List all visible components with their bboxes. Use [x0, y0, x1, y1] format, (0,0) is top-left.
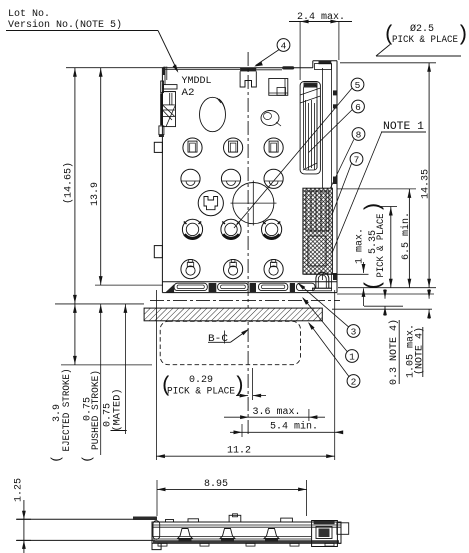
dimension mated line — [124, 304, 126, 434]
side view left lever — [153, 521, 160, 540]
svg-text:(: ( — [363, 279, 386, 292]
svg-text:3: 3 — [351, 326, 357, 337]
svg-text:YMDDL: YMDDL — [182, 75, 212, 87]
contact row arc type — [181, 169, 200, 188]
svg-text:4: 4 — [281, 40, 287, 51]
balloon 6 — [352, 100, 365, 113]
contact row square-in-circle — [183, 138, 202, 157]
connector body outline — [161, 68, 163, 293]
side view mounting lines — [16, 518, 155, 520]
crosshatched shield block — [303, 188, 333, 274]
large reference circle — [233, 183, 274, 224]
dimension 5.35 pick&place — [390, 207, 392, 288]
balloon 4 — [277, 39, 290, 52]
body inner right wall — [331, 64, 333, 288]
svg-text:8: 8 — [356, 129, 362, 140]
leader balloon 8 — [316, 140, 354, 219]
5.35 top ref — [381, 206, 397, 208]
svg-text:3.6 max.: 3.6 max. — [253, 407, 301, 418]
balloon 3 — [347, 325, 360, 338]
dimension pushed stroke line — [100, 304, 102, 455]
svg-text:(: ( — [80, 455, 95, 463]
leader balloon 7 — [325, 164, 352, 234]
balloon 7 — [350, 153, 363, 166]
leader balloon 5 — [234, 88, 352, 228]
dome contact — [316, 272, 329, 288]
side view right box — [312, 521, 338, 547]
side view contacts — [178, 529, 193, 539]
svg-text:PUSHED STROKE): PUSHED STROKE) — [90, 370, 102, 450]
PCB bar hatched — [144, 308, 322, 321]
left tab upper — [154, 142, 162, 152]
vertical centerline — [247, 52, 249, 437]
svg-text:6.5 min.: 6.5 min. — [400, 212, 412, 260]
dimension 14.35 — [428, 63, 430, 288]
card outline dashed — [160, 321, 300, 364]
leader balloon 4 — [256, 50, 280, 66]
balloon 8 — [352, 128, 365, 141]
dimension 13.9 — [95, 284, 163, 286]
svg-text:(14.65): (14.65) — [62, 162, 74, 204]
stroke reference line — [55, 303, 144, 305]
svg-text:NOTE 1: NOTE 1 — [383, 121, 424, 133]
leader balloon 6 — [309, 110, 353, 153]
top right black strip — [319, 61, 332, 64]
svg-text:Lot No.: Lot No. — [8, 9, 50, 20]
svg-text:PICK & PLACE: PICK & PLACE — [167, 387, 235, 398]
dimension 6.5 min — [408, 189, 410, 288]
dimension 0.3 NOTE4 — [384, 289, 386, 299]
svg-text:8.95: 8.95 — [204, 479, 228, 490]
1 max ref line — [304, 273, 369, 275]
top-left latch — [164, 67, 166, 85]
6.5 min top ref — [337, 188, 416, 190]
left tab lower — [154, 246, 162, 258]
svg-text:(MATED): (MATED) — [111, 389, 123, 432]
keyed circle — [198, 191, 223, 216]
svg-text:PICK & PLACE: PICK & PLACE — [392, 35, 458, 46]
dimension 3.9 ejected stroke — [74, 304, 76, 365]
dimension 1.05 max NOTE4 — [428, 289, 430, 299]
top edge double wall — [256, 69, 282, 71]
svg-text:(: ( — [49, 455, 64, 463]
svg-text:1.25: 1.25 — [14, 478, 25, 502]
svg-text:2: 2 — [351, 376, 357, 387]
svg-text:PICK & PLACE: PICK & PLACE — [376, 214, 387, 278]
svg-text:EJECTED STROKE): EJECTED STROKE) — [61, 369, 73, 452]
large oval opening — [200, 97, 226, 131]
svg-text:13.9: 13.9 — [90, 182, 101, 206]
svg-text:A2: A2 — [182, 87, 195, 99]
contact row grommet type — [181, 260, 200, 279]
svg-text:0.29: 0.29 — [189, 375, 213, 386]
side view right tab — [337, 523, 349, 535]
top right small box — [269, 79, 288, 96]
balloon 2 — [347, 375, 360, 388]
side view body — [152, 522, 341, 543]
leader to version mark — [158, 31, 178, 72]
svg-text:Ø2.5: Ø2.5 — [410, 23, 434, 35]
bar top ext line — [332, 308, 432, 310]
svg-text:7: 7 — [354, 154, 360, 165]
top center tab — [240, 68, 256, 72]
gap ref line short — [364, 305, 403, 307]
svg-text:): ) — [363, 201, 386, 214]
svg-text:(: ( — [383, 24, 396, 47]
contact row ring type — [182, 219, 202, 239]
side view top bumps — [166, 520, 174, 523]
svg-text:5: 5 — [355, 80, 361, 91]
svg-text:): ) — [457, 24, 469, 47]
balloon 5 — [351, 78, 364, 91]
dimension (14.65) — [66, 67, 163, 69]
svg-text:6: 6 — [355, 102, 361, 113]
dimension 1 max — [363, 262, 365, 273]
svg-text:): ) — [233, 375, 246, 398]
svg-text:11.2: 11.2 — [227, 446, 251, 457]
svg-text:14.35: 14.35 — [420, 169, 431, 199]
small oval contact — [261, 111, 279, 126]
svg-text:B-C: B-C — [208, 334, 228, 345]
svg-text:1: 1 — [349, 351, 355, 362]
body bottom band — [162, 281, 337, 283]
right 14.35 bottom ref — [338, 287, 436, 289]
right edge black pads — [333, 90, 337, 95]
side view feet — [158, 543, 167, 546]
right top ref line — [340, 62, 436, 64]
svg-text:Version No.(NOTE 5): Version No.(NOTE 5) — [8, 19, 122, 31]
leader NOTE 1 — [330, 133, 382, 259]
balloon 1 — [346, 350, 359, 363]
side view dark sliver — [133, 517, 157, 521]
leader balloon 1 — [303, 298, 348, 352]
leader balloon 2 — [309, 323, 349, 377]
right mid ref line — [337, 293, 434, 295]
svg-text:(NOTE 4): (NOTE 4) — [413, 327, 425, 375]
right spring contact — [300, 82, 320, 174]
svg-text:5.4 min.: 5.4 min. — [270, 421, 318, 433]
svg-text:(: ( — [160, 375, 173, 398]
svg-text:0.3 NOTE 4): 0.3 NOTE 4) — [388, 319, 400, 385]
leader balloon 3 — [299, 284, 349, 328]
horizontal centerline — [150, 300, 340, 302]
svg-text:1 max.: 1 max. — [354, 228, 365, 264]
top edge black pill — [282, 66, 294, 69]
